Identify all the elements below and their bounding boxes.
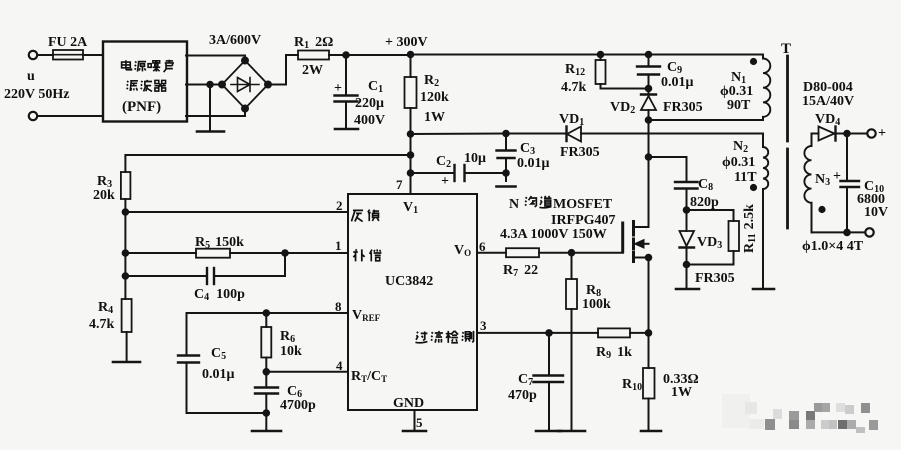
svg-text:UC3842: UC3842 <box>385 274 433 289</box>
capacitor C4 100p <box>125 253 285 284</box>
svg-text:FR305: FR305 <box>695 271 735 286</box>
svg-text:R91k: R91k <box>596 345 632 361</box>
wire <box>329 54 411 56</box>
capacitor C7 470p <box>534 333 564 430</box>
node C8-VD3-R11 junction <box>684 207 690 213</box>
resistor R4 4.7k <box>122 299 132 361</box>
svg-text:FU 2A: FU 2A <box>48 35 88 50</box>
wire pin 3 current sense <box>477 332 598 334</box>
svg-text:FR305: FR305 <box>663 100 703 115</box>
svg-text:IRFPG407: IRFPG407 <box>551 213 616 228</box>
svg-text:R2: R2 <box>424 73 439 89</box>
svg-text:C1: C1 <box>368 79 383 95</box>
svg-text:5: 5 <box>416 415 423 430</box>
ground (R10) <box>641 430 661 433</box>
capacitor C6 4700p <box>255 372 278 430</box>
svg-text:VO: VO <box>454 243 471 258</box>
transistor Q1 MOSFET IRFPG407 <box>623 157 652 333</box>
svg-text:R12Ω: R12Ω <box>294 35 333 51</box>
wire pin 8 VREF <box>187 312 349 314</box>
svg-text:R722: R722 <box>503 263 538 279</box>
label gou dao (N-channel) <box>525 196 552 208</box>
svg-text:+: + <box>334 81 342 96</box>
svg-text:0.01μ: 0.01μ <box>661 75 694 90</box>
svg-text:R10: R10 <box>622 377 642 393</box>
node C2-C3 junction <box>503 170 509 176</box>
node C3 top <box>503 131 509 137</box>
svg-text:820p: 820p <box>690 195 719 210</box>
label pin3 guo liu jian ce (overcurrent detect) <box>415 331 473 343</box>
node C9 top on rail <box>646 52 652 58</box>
ground (C7) <box>536 430 561 433</box>
node N1 bottom / drain line <box>646 117 652 123</box>
node pin2 junction <box>123 209 129 215</box>
svg-text:2: 2 <box>336 198 343 213</box>
wire +300V rail <box>411 54 764 56</box>
wire <box>83 54 103 56</box>
svg-text:D80-004: D80-004 <box>803 80 853 95</box>
svg-text:3A/600V: 3A/600V <box>209 33 261 48</box>
wire pin 2 feedback <box>125 211 348 213</box>
wire <box>186 56 245 61</box>
svg-text:ϕ1.0×4 4T: ϕ1.0×4 4T <box>802 239 864 254</box>
node C6 top <box>264 369 270 375</box>
resistor R7 22 <box>506 248 623 257</box>
svg-text:+: + <box>878 126 886 141</box>
svg-text:100k: 100k <box>582 297 611 312</box>
svg-text:VREF: VREF <box>352 308 381 323</box>
wire N1 bottom <box>649 119 764 121</box>
svg-text:VD4: VD4 <box>815 112 840 128</box>
svg-text:N3: N3 <box>815 172 830 188</box>
node source-R9-R10 junction <box>646 330 652 336</box>
wire <box>268 55 298 85</box>
node VD3-R11 bottom junction <box>684 262 690 268</box>
label PNF box text row 2: lv bo qi <box>126 80 166 92</box>
svg-text:ϕ0.31: ϕ0.31 <box>720 84 753 99</box>
svg-text:C8: C8 <box>698 177 713 193</box>
node VCC line <box>408 131 414 137</box>
ground (N2) <box>753 288 774 291</box>
IC U1 UC3842 <box>348 194 477 410</box>
svg-text:C3: C3 <box>520 141 535 157</box>
svg-text:V1: V1 <box>403 200 418 216</box>
node R5-C4 right junction <box>282 250 288 256</box>
ground (R4) <box>113 361 140 364</box>
node: AC input terminal bottom <box>29 112 37 120</box>
node R3 sense line <box>408 152 414 158</box>
svg-text:0.01μ: 0.01μ <box>517 156 550 171</box>
svg-text:+: + <box>833 169 841 184</box>
node gate-R8 junction <box>569 250 575 256</box>
svg-text:220V 50Hz: 220V 50Hz <box>4 87 69 102</box>
svg-text:C9: C9 <box>667 60 682 76</box>
ground (VD3/R11) <box>676 288 699 291</box>
ground (R8) <box>558 430 585 433</box>
ground (C1) <box>335 128 358 131</box>
svg-text:C7: C7 <box>518 372 533 388</box>
svg-text:VD2: VD2 <box>610 100 635 116</box>
wire <box>38 115 104 117</box>
svg-text:R5150k: R5150k <box>195 235 244 251</box>
svg-text:C2: C2 <box>436 154 451 170</box>
node: output terminal minus <box>865 228 873 236</box>
resistor R5 150k <box>125 249 348 258</box>
capacitor C10 6800u <box>841 134 860 233</box>
svg-text:R6: R6 <box>280 329 295 345</box>
wire drain line <box>648 120 650 227</box>
wire <box>209 85 211 132</box>
capacitor C9 0.01u <box>637 55 660 89</box>
svg-text:90T: 90T <box>727 98 751 113</box>
svg-text:T: T <box>781 41 791 57</box>
svg-text:120k: 120k <box>420 90 449 105</box>
node +300V <box>408 52 414 58</box>
svg-text:R4: R4 <box>98 300 113 316</box>
diode VD1 FR305 <box>567 127 764 148</box>
label PNF box text row 1: dian yuan zao sheng <box>122 60 174 72</box>
svg-text:(PNF): (PNF) <box>122 99 161 115</box>
wire pin 6 VO <box>477 252 506 254</box>
svg-text:+ 300V: + 300V <box>385 35 428 50</box>
svg-text:FR305: FR305 <box>560 145 600 160</box>
svg-text:11T: 11T <box>734 170 757 185</box>
svg-text:GND: GND <box>393 396 424 411</box>
fuse FU 2A <box>53 50 83 60</box>
svg-text:N: N <box>509 197 519 212</box>
svg-text:400V: 400V <box>354 113 385 128</box>
wire <box>186 84 222 86</box>
transformer T winding N3 secondary <box>804 134 824 233</box>
label pin2 fan kui (feedback) <box>351 210 379 222</box>
node junction on AC neutral <box>207 82 213 88</box>
capacitor C5 0.01u <box>178 313 266 413</box>
resistor R2 120k 1W <box>405 55 417 174</box>
diode VD4 D80-004 <box>812 127 868 141</box>
diode VD2 FR305 <box>641 89 656 121</box>
svg-text:4: 4 <box>336 358 343 373</box>
node C4 left <box>123 273 129 279</box>
wire sense line to R3 <box>125 155 410 172</box>
svg-text:RT/CT: RT/CT <box>351 369 387 384</box>
svg-text:15A/40V: 15A/40V <box>802 94 854 109</box>
wire secondary bottom <box>812 231 866 233</box>
svg-text:2W: 2W <box>302 63 323 78</box>
resistor R11 2.5k <box>687 210 740 265</box>
svg-text:C4100p: C4100p <box>194 287 245 303</box>
ground (bridge) <box>197 130 224 133</box>
svg-text:+: + <box>441 174 449 189</box>
svg-text:4.7k: 4.7k <box>89 317 115 332</box>
resistor R8 100k <box>566 253 577 430</box>
resistor R3 20k <box>121 172 130 299</box>
capacitor C3 0.01u <box>497 134 516 182</box>
svg-text:8: 8 <box>335 299 342 314</box>
svg-text:1W: 1W <box>424 110 445 125</box>
svg-text:ϕ0.31: ϕ0.31 <box>722 155 755 170</box>
capacitor C1 220u 400V <box>335 55 358 128</box>
resistor R1 2ohm 2W <box>298 51 329 60</box>
wire VCC line to VD1 <box>411 133 567 136</box>
node C8 branch <box>646 154 652 160</box>
wire <box>38 54 54 56</box>
node C7 top <box>546 330 552 336</box>
resistor R6 10k <box>261 313 271 372</box>
svg-text:4.3A 1000V 150W: 4.3A 1000V 150W <box>500 227 607 242</box>
diode VD3 FR305 <box>680 210 695 288</box>
wire pin 4 RT/CT <box>266 371 348 373</box>
transformer core <box>786 56 789 228</box>
PNF line filter box <box>103 42 187 122</box>
capacitor C8 820p <box>649 157 698 210</box>
svg-text:N2: N2 <box>733 139 748 155</box>
ground (C3) <box>497 185 516 188</box>
svg-text:220μ: 220μ <box>355 96 384 111</box>
svg-text:10V: 10V <box>864 205 888 220</box>
node C9-R12-VD2 junction <box>646 86 652 92</box>
node C10 bottom <box>844 230 850 236</box>
svg-text:470p: 470p <box>508 388 537 403</box>
svg-text:4700p: 4700p <box>280 398 316 413</box>
svg-text:R12: R12 <box>565 62 585 78</box>
node C10 top <box>844 131 850 137</box>
svg-text:1W: 1W <box>671 385 692 400</box>
svg-text:C5: C5 <box>211 346 226 362</box>
svg-text:R112.5k: R112.5k <box>742 204 758 253</box>
wire pin 7 <box>410 173 412 194</box>
wire <box>186 113 245 117</box>
ground (C6) <box>252 430 281 433</box>
svg-text:VD1: VD1 <box>559 112 584 128</box>
svg-text:4.7k: 4.7k <box>561 80 587 95</box>
watermark blocks <box>722 394 878 433</box>
node R5 left <box>123 250 129 256</box>
svg-text:20k: 20k <box>93 188 115 203</box>
svg-text:6: 6 <box>479 239 486 254</box>
svg-text:3: 3 <box>480 318 487 333</box>
node R6 top <box>264 310 270 316</box>
ground (pin 5) <box>403 430 426 433</box>
transformer T winding N2 <box>751 147 768 288</box>
svg-text:10μ: 10μ <box>464 151 486 166</box>
resistor R12 4.7k <box>596 55 649 89</box>
svg-text:VD3: VD3 <box>697 235 722 251</box>
wire pin 5 GND <box>414 410 416 430</box>
svg-text:7: 7 <box>396 177 403 192</box>
node junction C1 top <box>343 52 349 58</box>
node: AC input terminal top <box>29 51 37 59</box>
bridge rectifier 3A/600V <box>219 58 271 112</box>
resistor R9 1k <box>598 328 649 337</box>
svg-text:10k: 10k <box>280 344 302 359</box>
capacitor C2 10u <box>411 165 507 181</box>
resistor R10 0.33ohm 1W <box>643 333 655 430</box>
node: output terminal plus <box>867 129 875 137</box>
svg-text:1: 1 <box>335 238 342 253</box>
node C5-C6 bottom junction <box>264 410 270 416</box>
node R12 top on rail <box>598 52 604 58</box>
svg-text:MOSFET: MOSFET <box>553 197 613 212</box>
svg-text:0.01μ: 0.01μ <box>202 367 235 382</box>
transformer T winding N1 <box>751 55 770 121</box>
svg-text:u: u <box>27 69 35 84</box>
label pin1 bu chang (compensation) <box>353 249 381 261</box>
node pin7/C2 <box>408 170 414 176</box>
